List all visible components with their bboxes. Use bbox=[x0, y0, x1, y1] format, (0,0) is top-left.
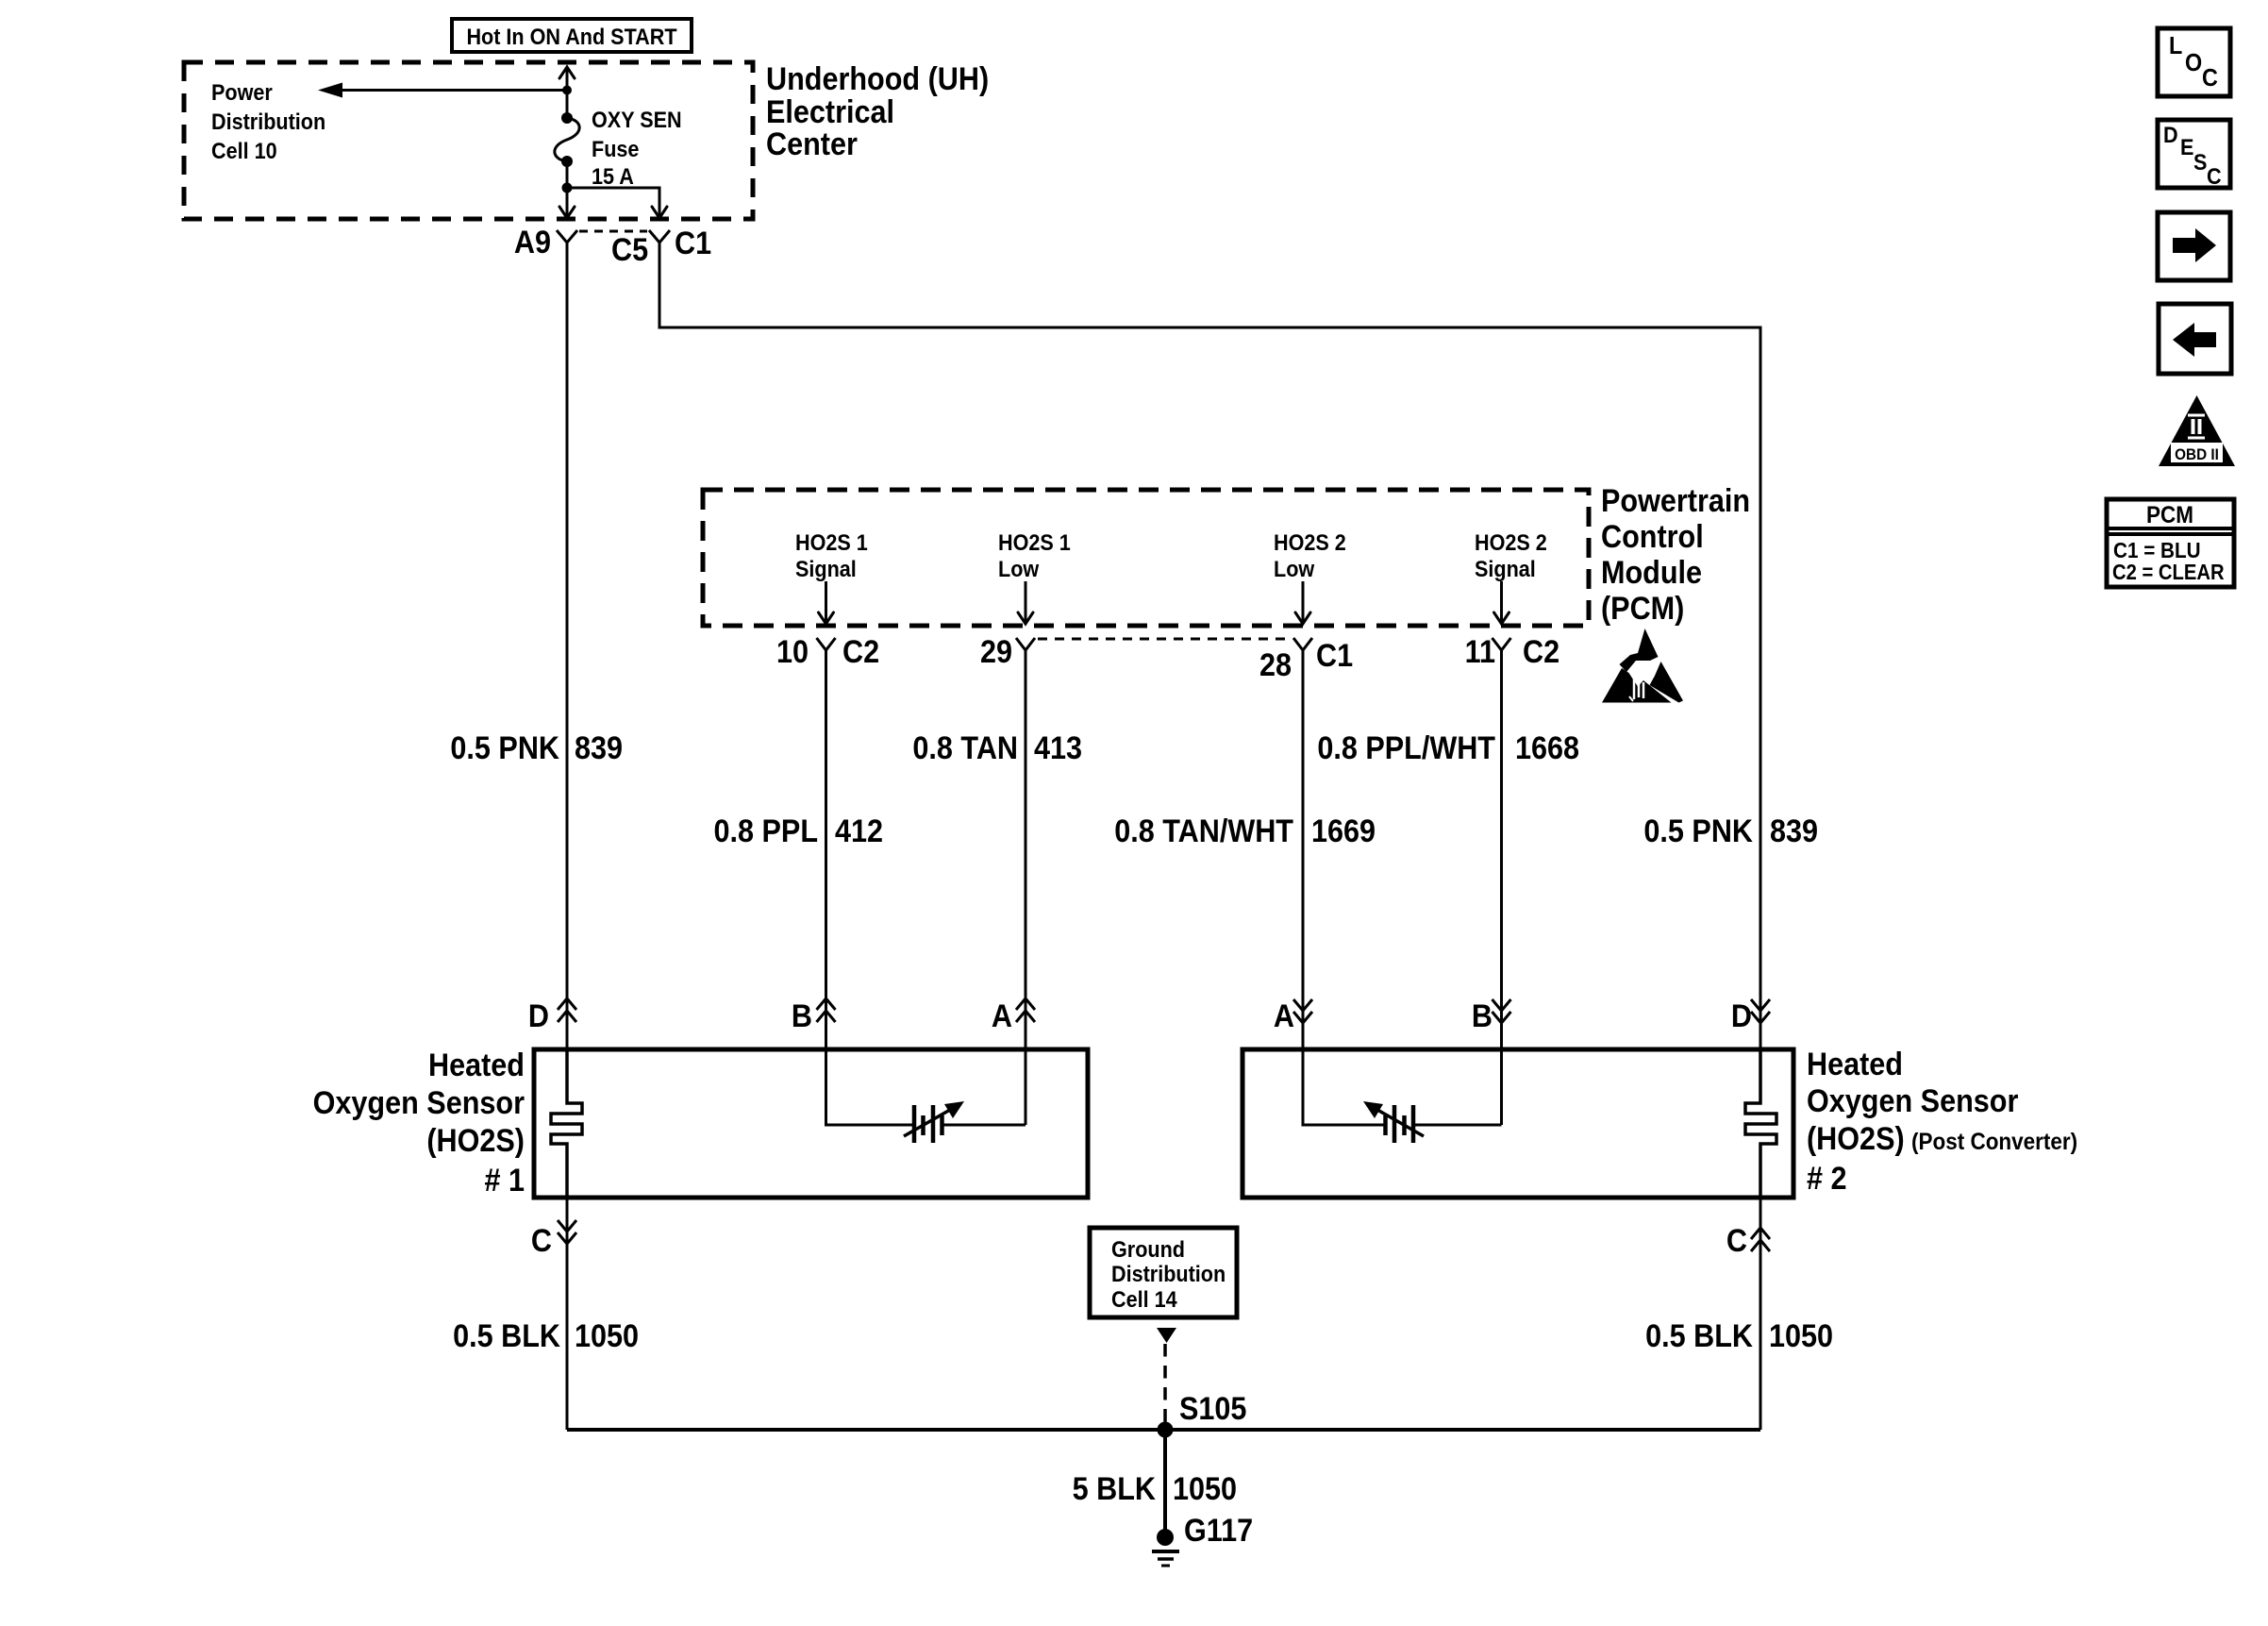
wire vertical feed from fuse up to hot label bbox=[566, 67, 569, 218]
label Power Distribution Cell 10 bbox=[211, 79, 325, 163]
svg-text:Center: Center bbox=[766, 126, 858, 162]
svg-text:1668: 1668 bbox=[1515, 730, 1579, 766]
wire PCM pin 29 to HO2S1 A bbox=[1016, 638, 1035, 1049]
svg-text:HO2S 1: HO2S 1 bbox=[998, 529, 1071, 555]
svg-text:Oxygen Sensor: Oxygen Sensor bbox=[1807, 1083, 2019, 1119]
svg-text:0.5 PNK: 0.5 PNK bbox=[450, 730, 559, 766]
svg-text:HO2S 2: HO2S 2 bbox=[1475, 529, 1547, 555]
svg-text:PCM: PCM bbox=[2146, 502, 2193, 528]
PCM dashed box bbox=[703, 490, 1589, 626]
svg-text:1050: 1050 bbox=[1769, 1318, 1833, 1354]
svg-text:B: B bbox=[1472, 998, 1493, 1034]
junction dot fuse output bbox=[562, 183, 573, 193]
wire PCM pin 28 C1 to HO2S2 A bbox=[1293, 638, 1312, 1049]
svg-text:Signal: Signal bbox=[1475, 556, 1536, 581]
label Ground Distribution Cell 14 bbox=[1111, 1236, 1226, 1312]
svg-text:0.8 TAN: 0.8 TAN bbox=[912, 730, 1018, 766]
arrowhead PCM pin 28 bbox=[1295, 612, 1310, 624]
svg-text:Module: Module bbox=[1601, 555, 1702, 591]
connector chevrons pin C HO2S2 up bbox=[1751, 1228, 1770, 1251]
arrowhead PCM pin 10 bbox=[819, 612, 834, 624]
fuse terminal dot bottom bbox=[561, 156, 573, 167]
svg-text:29: 29 bbox=[980, 634, 1012, 670]
sensor cell short plates HO2S 1 bbox=[924, 1115, 942, 1135]
wire splice to G117 ground bbox=[1163, 1430, 1167, 1534]
icon OBD II triangle bbox=[2159, 395, 2235, 466]
svg-text:28: 28 bbox=[1259, 647, 1292, 683]
sensor variable arrow HO2S 2 bbox=[1371, 1106, 1424, 1136]
svg-text:1050: 1050 bbox=[1173, 1471, 1237, 1507]
svg-text:Distribution: Distribution bbox=[211, 109, 325, 134]
PCM pin name HO2S 1 Low bbox=[998, 529, 1071, 581]
power distribution arrowhead bbox=[318, 83, 342, 98]
svg-text:Hot In ON And START: Hot In ON And START bbox=[466, 24, 676, 49]
PCM pin arrows into module bbox=[826, 581, 1502, 623]
svg-text:C: C bbox=[2202, 65, 2218, 92]
PCM pin name HO2S 1 Signal bbox=[795, 529, 868, 581]
junction dot hot feed bbox=[562, 86, 572, 95]
svg-text:A: A bbox=[1274, 998, 1294, 1034]
svg-text:11: 11 bbox=[1465, 634, 1495, 670]
svg-text:Control: Control bbox=[1601, 519, 1704, 555]
svg-text:OBD II: OBD II bbox=[2175, 445, 2219, 463]
ground distribution cell 14 box bbox=[1090, 1228, 1237, 1317]
svg-text:Low: Low bbox=[1274, 556, 1314, 581]
underhood electrical center dashed box bbox=[184, 62, 753, 219]
sensor cell short plates HO2S 2 bbox=[1386, 1115, 1405, 1135]
svg-text:412: 412 bbox=[835, 813, 883, 849]
svg-text:D: D bbox=[2163, 122, 2178, 147]
connector chevrons pin B HO2S2 down bbox=[1493, 999, 1511, 1023]
connector boundary dashed line A9-C5-C1 bbox=[579, 230, 647, 233]
sensor cell long plates HO2S 2 bbox=[1394, 1105, 1413, 1143]
heater element HO2S 2 bbox=[1745, 1049, 1776, 1198]
ESD symbol (static sensitive) bbox=[1602, 629, 1683, 703]
svg-text:C: C bbox=[2207, 163, 2222, 189]
icon LOC box bbox=[2158, 28, 2230, 96]
sensor arrowhead HO2S 2 bbox=[1363, 1101, 1383, 1118]
svg-text:HO2S 2: HO2S 2 bbox=[1274, 529, 1346, 555]
svg-text:(Post Converter): (Post Converter) bbox=[1911, 1129, 2077, 1155]
svg-text:Fuse: Fuse bbox=[592, 136, 639, 161]
connector chevrons pin D HO2S2 down bbox=[1751, 999, 1770, 1023]
svg-text:G117: G117 bbox=[1184, 1513, 1253, 1549]
connector chevrons pin C HO2S1 down bbox=[558, 1220, 576, 1244]
sensor element wires HO2S 1 bbox=[826, 1049, 1026, 1125]
svg-text:C2 = CLEAR: C2 = CLEAR bbox=[2112, 560, 2225, 585]
svg-text:0.5 BLK: 0.5 BLK bbox=[1645, 1318, 1753, 1354]
label Underhood Electrical Center bbox=[766, 61, 989, 162]
ESD symbol right wedge bbox=[1650, 662, 1684, 703]
svg-text:C: C bbox=[1726, 1223, 1747, 1259]
svg-text:S: S bbox=[2193, 149, 2207, 175]
svg-text:B: B bbox=[792, 998, 812, 1034]
svg-text:10: 10 bbox=[776, 634, 809, 670]
svg-text:0.8 PPL: 0.8 PPL bbox=[714, 813, 818, 849]
svg-text:E: E bbox=[2180, 134, 2193, 159]
arrow down at C1 into connector bbox=[652, 207, 667, 218]
wire dashed from ground distribution to S105 bbox=[1163, 1344, 1167, 1427]
node Hot In ON And START label box bbox=[452, 19, 692, 52]
ground symbol G117 bbox=[1152, 1551, 1179, 1566]
svg-text:1669: 1669 bbox=[1311, 813, 1376, 849]
svg-text:D: D bbox=[528, 998, 549, 1034]
ESD symbol top wedge bbox=[1620, 629, 1659, 672]
sensor arrowhead HO2S 1 bbox=[944, 1101, 964, 1118]
connector chevrons pin A HO2S1 up bbox=[1016, 998, 1035, 1022]
svg-text:Underhood (UH): Underhood (UH) bbox=[766, 61, 989, 97]
svg-text:OXY SEN: OXY SEN bbox=[592, 107, 682, 132]
svg-text:L: L bbox=[2169, 33, 2182, 59]
svg-text:# 1: # 1 bbox=[484, 1163, 525, 1199]
svg-text:Oxygen Sensor: Oxygen Sensor bbox=[313, 1085, 525, 1121]
HO2S 2 box bbox=[1242, 1049, 1793, 1198]
ESD symbol hand fingers bbox=[1634, 676, 1643, 699]
ground distribution triangle bbox=[1157, 1328, 1176, 1343]
wire HO2S2 C down to ground bus bbox=[1759, 1198, 1762, 1430]
svg-text:HO2S 1: HO2S 1 bbox=[795, 529, 868, 555]
svg-text:Powertrain: Powertrain bbox=[1601, 483, 1750, 519]
svg-text:Ground: Ground bbox=[1111, 1236, 1185, 1262]
svg-text:A9: A9 bbox=[514, 225, 551, 260]
svg-text:15 A: 15 A bbox=[592, 163, 634, 189]
svg-text:0.8 TAN/WHT: 0.8 TAN/WHT bbox=[1114, 813, 1293, 849]
splice S105 dot bbox=[1158, 1422, 1174, 1438]
arrow up into hot label bbox=[559, 67, 575, 78]
svg-text:Cell 14: Cell 14 bbox=[1111, 1286, 1177, 1312]
icon arrow right box bbox=[2158, 212, 2230, 280]
PCM pin name HO2S 2 Low bbox=[1274, 529, 1346, 581]
svg-text:C2: C2 bbox=[1523, 634, 1559, 670]
sensor element wires HO2S 2 bbox=[1303, 1049, 1502, 1125]
svg-text:A: A bbox=[992, 998, 1012, 1034]
ESD symbol lower-left wedge with hand bbox=[1602, 668, 1672, 703]
svg-text:0.5 BLK: 0.5 BLK bbox=[453, 1318, 560, 1354]
sensor cell long plates HO2S 1 bbox=[914, 1105, 933, 1143]
icon PCM connector legend table bbox=[2107, 499, 2234, 587]
HO2S 1 box bbox=[534, 1049, 1088, 1198]
svg-text:0.5 PNK: 0.5 PNK bbox=[1643, 813, 1753, 849]
wire HO2S1 C down to ground bus bbox=[566, 1198, 569, 1430]
connector chevrons pin D HO2S1 up bbox=[558, 998, 576, 1022]
svg-text:0.8 PPL/WHT: 0.8 PPL/WHT bbox=[1317, 730, 1495, 766]
svg-text:Distribution: Distribution bbox=[1111, 1261, 1226, 1286]
ground G117 dot bbox=[1157, 1529, 1174, 1546]
arrowheads (open chevrons) bbox=[559, 67, 1509, 624]
svg-text:1050: 1050 bbox=[575, 1318, 639, 1354]
svg-text:839: 839 bbox=[1770, 813, 1818, 849]
svg-text:413: 413 bbox=[1034, 730, 1082, 766]
svg-text:Cell 10: Cell 10 bbox=[211, 138, 277, 163]
wire PCM pin 10 C2 to HO2S1 B bbox=[817, 638, 836, 1049]
icon arrow left box bbox=[2159, 304, 2231, 374]
svg-text:Low: Low bbox=[998, 556, 1039, 581]
svg-text:Electrical: Electrical bbox=[766, 94, 894, 130]
label Heated Oxygen Sensor (HO2S) # 1 bbox=[313, 1048, 525, 1199]
wire ground bus S105 bbox=[567, 1428, 1760, 1432]
svg-text:Heated: Heated bbox=[1807, 1047, 1903, 1082]
svg-text:Power: Power bbox=[211, 79, 273, 105]
arrowhead PCM pin 11 bbox=[1494, 612, 1509, 624]
svg-text:C1: C1 bbox=[675, 226, 711, 261]
svg-text:(HO2S): (HO2S) bbox=[1807, 1121, 1905, 1157]
svg-text:C1: C1 bbox=[1316, 638, 1353, 674]
fuse OXY SEN 15A s-curve bbox=[555, 118, 579, 161]
svg-text:S105: S105 bbox=[1179, 1391, 1246, 1427]
svg-text:Signal: Signal bbox=[795, 556, 857, 581]
label Heated Oxygen Sensor (HO2S) (Post Converter) # 2 bbox=[1807, 1047, 2077, 1197]
connector chevrons pin A HO2S2 down bbox=[1293, 999, 1312, 1023]
heater element HO2S 1 bbox=[551, 1049, 582, 1198]
label OXY SEN Fuse 15 A bbox=[592, 107, 682, 189]
icon DESC box bbox=[2158, 120, 2230, 189]
wire A9 feed down to HO2S 1 box bbox=[557, 230, 577, 1049]
svg-text:# 2: # 2 bbox=[1807, 1161, 1847, 1197]
sensor variable arrow HO2S 1 bbox=[904, 1106, 957, 1136]
svg-text:(HO2S): (HO2S) bbox=[426, 1123, 525, 1159]
svg-text:C5: C5 bbox=[611, 232, 648, 268]
svg-text:C2: C2 bbox=[842, 634, 879, 670]
arrow down at A9 into connector bbox=[559, 207, 575, 218]
svg-text:D: D bbox=[1731, 998, 1752, 1034]
svg-text:839: 839 bbox=[575, 730, 623, 766]
label Powertrain Control Module (PCM) bbox=[1601, 483, 1750, 627]
svg-text:O: O bbox=[2185, 50, 2202, 76]
svg-text:5 BLK: 5 BLK bbox=[1073, 1471, 1157, 1507]
svg-text:(PCM): (PCM) bbox=[1601, 591, 1684, 627]
PCM pin name HO2S 2 Signal bbox=[1475, 529, 1547, 581]
svg-text:Heated: Heated bbox=[428, 1048, 525, 1083]
fuse terminal dot top bbox=[561, 112, 573, 124]
wire PCM pin 11 C2 to HO2S2 B bbox=[1493, 638, 1511, 1049]
ESD symbol thumb notch bbox=[1629, 696, 1633, 701]
connector boundary dashed line 29-28 C5 bbox=[1038, 638, 1289, 641]
connector chevrons pin B HO2S1 up bbox=[817, 998, 836, 1022]
arrowhead PCM pin 29 bbox=[1018, 612, 1033, 624]
wire C1 feed down right and across to HO2S 2 bbox=[649, 230, 1760, 1049]
wire branch from fuse to C1 bbox=[567, 188, 659, 216]
wire power distribution feed arrow line bbox=[340, 89, 567, 92]
svg-text:C: C bbox=[531, 1223, 552, 1259]
